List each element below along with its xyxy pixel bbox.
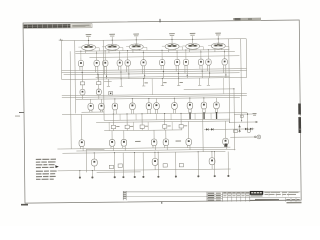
wire right rail A	[228, 39, 231, 122]
wire grid bus 2	[62, 95, 247, 97]
label V2 type designation	[109, 34, 115, 35]
wire R1 to V19	[81, 85, 83, 90]
wire legs V37	[223, 145, 225, 148]
wire legs V33	[122, 146, 124, 149]
wire anode feed	[200, 50, 202, 56]
title header text block (dark)	[23, 24, 70, 28]
terminal	[91, 176, 93, 178]
diode	[206, 128, 208, 130]
capacitor C1	[109, 92, 113, 96]
wire anode feed	[104, 51, 106, 57]
revision strip second line	[123, 195, 207, 197]
wire grid lead V38	[93, 153, 95, 159]
table header text	[228, 192, 231, 193]
junction node	[126, 113, 127, 114]
tube V33	[121, 139, 127, 146]
label bias value	[179, 82, 182, 83]
tube V30	[214, 102, 220, 109]
junction node	[164, 113, 165, 114]
wire grid bus 1	[62, 94, 247, 96]
wire bias stub	[143, 79, 145, 86]
vertical drawing number text on right border	[298, 103, 301, 114]
wire cathode legs V6	[214, 49, 216, 52]
wire cathode legs V5	[188, 49, 190, 52]
wire screen bus	[89, 56, 239, 58]
tube V37	[223, 138, 229, 145]
wire R7 top	[180, 113, 182, 124]
junction node	[128, 73, 129, 74]
resistor (bottom row)	[118, 164, 122, 167]
wire left rail E	[60, 41, 62, 80]
junction node	[80, 51, 81, 52]
wire legs V9	[103, 66, 105, 74]
wire tube left link	[126, 46, 130, 48]
tube V23	[112, 103, 118, 110]
tube V4 (double triode)	[165, 43, 179, 49]
title block bottom edge	[250, 199, 300, 201]
wire legs V18	[223, 65, 225, 73]
wire tube side link	[95, 47, 99, 49]
terminal	[122, 176, 124, 178]
label R5 value	[145, 125, 148, 128]
table header text	[232, 192, 235, 193]
wire grid lead V24	[131, 99, 133, 104]
junction node	[121, 78, 122, 79]
wire ground bus	[58, 169, 231, 171]
approvals text	[208, 193, 215, 194]
junction node	[187, 75, 188, 76]
diode D5	[238, 125, 240, 127]
wire grid lead V36	[188, 121, 190, 139]
wire coupling bus 1	[62, 69, 247, 71]
wire left link 2	[86, 148, 104, 150]
wire anode lead V6	[217, 36, 219, 43]
wire grid lead V35	[165, 130, 167, 139]
approvals text	[208, 195, 215, 196]
bottom centre fold tick	[161, 202, 163, 204]
wire drop	[171, 122, 173, 130]
label row E right	[176, 140, 182, 141]
wire HT supply bus	[61, 39, 246, 41]
wire cathode V40	[211, 164, 213, 169]
wire legs V36	[187, 145, 189, 148]
wire legs V28	[188, 109, 190, 114]
sheet note text bottom right	[286, 202, 301, 204]
wire to terminal	[133, 153, 135, 176]
terminal	[227, 175, 229, 177]
resistor R7	[179, 125, 183, 128]
cathode resistor mark	[189, 112, 191, 119]
label bias value	[163, 82, 166, 83]
title block outline	[206, 192, 208, 202]
wire cathode legs V1	[84, 50, 86, 53]
wire output bus 3	[62, 152, 225, 154]
wire grid lead V40	[211, 152, 213, 158]
wire to terminal	[122, 153, 124, 176]
wire bias bus right	[184, 88, 234, 91]
wire left rail inner	[74, 41, 77, 114]
tube V15	[183, 59, 188, 65]
tube V26	[154, 103, 160, 110]
wire anode feed	[176, 50, 178, 56]
dark mark under V37	[225, 143, 228, 146]
wire legs V30	[214, 108, 216, 113]
wire anode feed	[96, 51, 98, 57]
wire tube left link	[102, 46, 106, 48]
junction node	[94, 152, 95, 153]
wire drop	[135, 114, 137, 120]
wire grid lead V17	[207, 56, 209, 59]
wire R2 to V20	[98, 85, 100, 90]
diode	[245, 128, 247, 130]
wire bias stub	[161, 78, 163, 85]
wire legs V29	[202, 109, 204, 114]
tube V19	[80, 89, 85, 95]
wire right rail C	[240, 39, 243, 121]
wire coupling bus 4	[96, 76, 230, 77]
resistor (bottom row)	[163, 164, 167, 167]
wire R5 bottom	[141, 128, 143, 130]
tube V32	[109, 139, 115, 146]
junction node	[105, 50, 106, 51]
wire to terminal	[175, 152, 177, 175]
junction node	[114, 152, 115, 153]
wire to terminal	[197, 152, 199, 175]
wire drop	[156, 114, 158, 120]
wire grid lead V7	[80, 57, 82, 60]
junction node	[79, 170, 80, 171]
cathode resistor mark	[216, 112, 218, 119]
wire grid lead V11	[127, 57, 129, 60]
wire legs V21	[89, 110, 91, 112]
wire tube side link	[179, 46, 183, 48]
junction node	[119, 52, 120, 53]
title text area	[265, 191, 271, 194]
junction node	[208, 49, 209, 50]
drawing number cells	[285, 198, 287, 202]
resistor R5	[140, 125, 144, 128]
wire grid lead V30	[215, 98, 217, 103]
wire anode lead V2	[111, 37, 113, 44]
junction node	[120, 71, 121, 72]
wire coupling bus 2	[62, 71, 247, 73]
left centre fold tick	[19, 111, 24, 113]
wire anode feed	[207, 50, 209, 56]
junction node	[211, 151, 212, 152]
label R4 value	[130, 125, 133, 128]
wire tube side link	[199, 46, 203, 48]
wire tube left link	[162, 45, 166, 47]
wire legs V8	[95, 66, 97, 72]
wire grid lead V37	[224, 121, 226, 139]
terminal	[254, 136, 256, 138]
junction node	[178, 73, 179, 74]
wire diode link	[239, 124, 241, 132]
tube V13	[159, 59, 164, 65]
wire grid lead V18	[224, 56, 226, 59]
wire lamp feed	[230, 136, 257, 138]
wire R4 top	[126, 114, 128, 125]
wire stub bus	[104, 80, 112, 82]
wire to terminal	[142, 152, 144, 175]
wire anode bus 1	[75, 50, 229, 52]
wire left rail outer	[70, 51, 71, 149]
wire R4 bottom	[126, 129, 128, 131]
wire feed R1	[81, 74, 83, 81]
junction node	[180, 113, 181, 114]
wire to terminal	[213, 152, 215, 175]
junction node	[144, 75, 145, 76]
wire V19 cathode	[82, 95, 84, 100]
junction node	[189, 98, 190, 99]
wire ground return wire	[97, 171, 141, 173]
wire lower bus 3	[104, 129, 182, 132]
tube V24	[130, 103, 136, 110]
pointer arrow	[55, 165, 59, 168]
terminal	[114, 176, 116, 178]
wire legs V17	[206, 65, 208, 71]
wire grid lead V21	[90, 99, 92, 104]
wire legs V34	[152, 145, 154, 148]
wire anode lead V3	[135, 37, 137, 44]
resistor (bottom row)	[179, 163, 183, 166]
table header text	[241, 192, 244, 193]
wire coupling bus 5	[62, 77, 247, 79]
tube V31	[79, 140, 85, 147]
title header outline box	[23, 24, 92, 29]
label row E left	[135, 141, 141, 142]
wire grid lead V39	[154, 152, 156, 158]
label box	[240, 115, 243, 117]
ground symbol HT bus left end	[59, 39, 63, 41]
resistor R2	[96, 82, 100, 85]
junction node	[218, 38, 219, 39]
junction node	[225, 74, 226, 75]
wire legs V24	[130, 109, 132, 114]
tube V14	[174, 59, 179, 65]
label meter	[253, 113, 257, 114]
wire R6 bottom	[164, 128, 166, 130]
label V3 type designation	[133, 34, 139, 35]
label R7 value	[184, 124, 187, 127]
junction node	[141, 113, 142, 114]
wire bias stub	[107, 79, 109, 86]
wire legs V25	[147, 109, 149, 114]
junction node	[163, 71, 164, 72]
resistor R1	[80, 82, 84, 85]
wire grid lead V27	[173, 98, 175, 103]
wire to terminal	[91, 171, 93, 177]
wire anode feed	[80, 51, 82, 57]
tube V34	[151, 139, 157, 146]
neon lamp	[247, 129, 250, 132]
tube V16	[198, 59, 203, 65]
wire anode feed	[119, 51, 121, 57]
title table columns	[226, 192, 228, 202]
wire anode bus 2	[75, 52, 234, 54]
wire drop	[119, 114, 121, 120]
wire legs V31	[80, 146, 82, 149]
junction node	[161, 50, 162, 51]
junction node	[136, 39, 137, 40]
junction node	[127, 50, 128, 51]
wire cathode legs V3	[132, 50, 134, 53]
tube V17	[206, 59, 211, 65]
drawing border frame	[23, 20, 301, 203]
junction node	[200, 51, 201, 52]
cathode resistor mark	[203, 112, 205, 119]
label bias value	[144, 82, 147, 83]
wire drop	[147, 122, 149, 130]
tube V11	[125, 60, 130, 66]
approvals text	[208, 200, 215, 201]
wire grid lead V25	[148, 99, 150, 104]
junction node	[96, 53, 97, 54]
wire grid lead V10	[119, 57, 121, 60]
diode D6	[238, 129, 240, 131]
wire anode lead V5	[192, 36, 194, 43]
terminal	[134, 176, 136, 178]
wire grid lead V8	[96, 57, 98, 60]
wire legs V15	[184, 65, 186, 73]
junction node	[114, 98, 115, 99]
microfilm text bottom left corner	[21, 204, 28, 206]
wire legs V12	[141, 66, 143, 74]
junction node	[112, 40, 113, 41]
wire grid lead V34	[153, 130, 155, 139]
wire grid lead V32	[111, 131, 113, 140]
wire anode feed	[161, 50, 163, 56]
diode	[250, 128, 252, 130]
approvals cell lines	[207, 193, 223, 195]
wire grid lead V14	[176, 56, 178, 59]
notes text block	[36, 159, 57, 180]
wire legs V22	[99, 110, 101, 112]
wire grid lead V16	[200, 56, 202, 59]
tube V36	[186, 139, 192, 146]
wire grid lead V9	[104, 57, 106, 60]
title table header line	[223, 193, 250, 195]
drawing number label top right	[233, 18, 261, 21]
tube V25	[146, 103, 152, 110]
wire legs V27	[172, 109, 174, 114]
wire tube left link	[208, 45, 212, 47]
junction node	[224, 51, 225, 52]
title block lower line	[250, 197, 300, 199]
wire anode feed	[127, 51, 129, 57]
wire bias stub	[178, 78, 180, 85]
wire left link 1	[57, 148, 60, 150]
wire anode lead V1	[87, 37, 89, 44]
wire legs V10	[118, 66, 120, 70]
tube V29	[201, 102, 207, 109]
tube V40	[209, 158, 215, 165]
tube V21	[88, 103, 94, 110]
junction node	[209, 73, 210, 74]
tube V12	[141, 60, 146, 66]
wire metering line	[234, 113, 252, 115]
junction node	[233, 88, 234, 89]
junction node	[214, 151, 215, 152]
wire drop	[210, 113, 212, 119]
wire bias stub	[120, 79, 122, 86]
table header text	[237, 192, 240, 193]
junction node	[82, 72, 83, 73]
wire tube left link	[78, 46, 82, 48]
junction node	[241, 120, 242, 121]
junction node	[174, 98, 175, 99]
wire to terminal	[227, 151, 229, 174]
wire output bus 1	[60, 147, 230, 149]
title header label (light part)	[71, 24, 91, 27]
label V1 type designation	[86, 34, 92, 35]
table header text	[246, 192, 249, 193]
resistor R6	[163, 125, 167, 128]
terminal	[197, 175, 199, 177]
wire legs V35	[164, 145, 166, 148]
tube V35	[163, 139, 169, 146]
junction node	[229, 122, 230, 123]
wire R3 bottom	[112, 129, 114, 131]
tube V38	[91, 159, 97, 166]
wire coupling bus 3	[64, 73, 240, 75]
junction node	[113, 114, 114, 115]
tube V28	[187, 102, 193, 109]
wire legs V13	[160, 66, 162, 70]
wire grid lead V12	[142, 57, 144, 60]
tube V20	[96, 89, 101, 95]
label V4 type designation	[169, 33, 175, 34]
wire anode feed	[185, 50, 187, 56]
label V6 type designation	[215, 33, 221, 34]
table header text	[223, 192, 226, 193]
wire inter-bus link	[151, 79, 153, 95]
company logo block	[250, 191, 263, 195]
junction node	[143, 78, 144, 79]
wire R7 bottom	[180, 128, 182, 130]
wire bias stub	[199, 78, 201, 85]
wire drop	[108, 122, 110, 130]
junction node	[92, 170, 93, 171]
diode	[211, 128, 213, 130]
resistor R8	[234, 130, 238, 133]
tube V2 (double triode)	[105, 44, 119, 50]
junction node	[143, 52, 144, 53]
terminal	[175, 175, 177, 177]
junction node	[97, 74, 98, 75]
wire drop	[170, 114, 172, 120]
resistor (bottom row)	[109, 165, 113, 168]
top centre fold tick	[159, 19, 161, 22]
wire R3 top	[112, 114, 114, 125]
junction node	[202, 71, 203, 72]
wire to terminal	[157, 152, 159, 175]
junction node	[106, 76, 107, 77]
wire cathode legs V4	[168, 49, 170, 52]
tube V9	[103, 60, 108, 66]
revision strip top line	[123, 191, 300, 193]
arrowhead	[256, 121, 259, 123]
tube V10	[117, 60, 122, 66]
tube V3 (double triode)	[129, 44, 143, 50]
tube V1 (double triode)	[82, 44, 96, 50]
tube V5 (double triode)	[186, 43, 200, 49]
wire legs V32	[110, 146, 112, 149]
label R3 value	[116, 125, 119, 128]
junction node	[154, 152, 155, 153]
wire grid lead V29	[203, 98, 205, 103]
tube V8	[94, 60, 99, 66]
